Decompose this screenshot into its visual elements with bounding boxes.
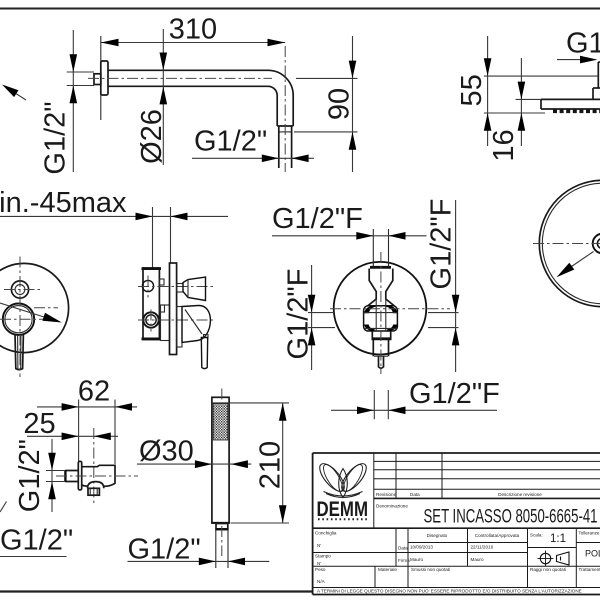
dimension 16 lower arrow (518, 113, 526, 131)
lever handle (15, 334, 23, 370)
svg-text:G1/2": G1/2" (194, 126, 267, 158)
hand shower G1/2 right arrow (228, 558, 245, 566)
mixer vertical centerline (19, 257, 21, 378)
wall extension line (100, 36, 102, 120)
dimension 210 top arrow (279, 403, 287, 421)
left G1/2F lower arrow (308, 328, 316, 346)
lever rosette outer circle (3, 304, 34, 335)
drawing frame bottom border (0, 590, 313, 592)
svg-text:Data: Data (398, 546, 408, 551)
svg-text:G1/2": G1/2" (566, 28, 600, 60)
diverter horizontal centerline (330, 308, 450, 310)
title block outer border (313, 453, 600, 595)
dimension 25 right arrow (94, 433, 111, 441)
head plate top (541, 98, 600, 100)
revision table column lines (395, 453, 397, 498)
dimension 16 upper arrow (518, 82, 526, 100)
svg-text:55: 55 (456, 74, 488, 106)
svg-text:G1/2"F: G1/2"F (283, 269, 315, 360)
head top view leader arrow (557, 263, 575, 278)
elbow inlet thread end face (64, 470, 66, 482)
right G1/2F dim line (455, 200, 457, 372)
svg-text:DEMM: DEMM (317, 497, 369, 521)
hub side port line lower (364, 327, 398, 329)
svg-text:Raggi non quotati: Raggi non quotati (530, 567, 566, 572)
hand shower bottom edge (212, 522, 229, 524)
svg-text:1:1: 1:1 (550, 533, 566, 545)
projection symbol circle (540, 553, 550, 563)
leader arrow at top left (14, 92, 26, 100)
hub top-right fillet (386, 306, 398, 314)
head G1/2 leader line (557, 59, 581, 61)
lever body (182, 305, 210, 342)
dimension 210 bottom arrow (279, 505, 287, 523)
svg-text:G1/2": G1/2" (128, 534, 201, 566)
svg-text:10/09/2013: 10/09/2013 (410, 544, 433, 549)
depth extension line right (170, 207, 172, 263)
arm thread G1/2 dim line (72, 30, 74, 172)
arm end G1/2 left arrow (262, 155, 279, 163)
dimension 90 upper arrow (349, 61, 357, 79)
upper axis centerline (138, 286, 214, 288)
dimension 90 lower arrow (349, 132, 357, 150)
diverter vertical centerline (380, 252, 382, 374)
spool upper block (368, 269, 394, 306)
elbow nut inner lines (89, 488, 91, 495)
arm end G1/2 label line (192, 157, 314, 159)
svg-text:G1/2"F: G1/2"F (272, 203, 363, 235)
head top view leader line (572, 252, 594, 267)
shower arm wall flange (101, 61, 108, 95)
diverter plate circle (334, 262, 427, 355)
svg-text:62: 62 (78, 376, 110, 408)
lever handle neck (204, 335, 209, 338)
lower block verticals (395, 528, 397, 566)
hand shower connector bottom thick (216, 528, 228, 530)
hub bottom-left fillet (364, 325, 375, 332)
DEMM logo drop (339, 469, 348, 498)
svg-text:POLI: POLI (585, 549, 600, 559)
bottom G1/2F left arrow (357, 407, 374, 415)
head plate left edge (540, 99, 542, 109)
bottom G1/2F extension lines (373, 390, 375, 419)
shower arm tube bottom edge (108, 85, 268, 87)
valve lower port outer circle (143, 312, 158, 327)
revision table row lines (374, 460, 600, 462)
bottom pipe end line (374, 355, 388, 357)
head connector top (593, 87, 600, 89)
head top view horizontal centerline (533, 243, 600, 245)
DEMM logo loops (316, 460, 349, 495)
shower arm threaded end left edge (278, 126, 280, 168)
head G1/2 leader arrow (580, 56, 598, 64)
hand shower top cap line (212, 402, 229, 404)
svg-text:16: 16 (488, 129, 520, 161)
svg-text:Firma: Firma (398, 558, 410, 563)
elbow G1/2 lower arrow (48, 482, 56, 500)
svg-text:Conchiglia: Conchiglia (315, 531, 337, 536)
leader stub (0, 502, 7, 513)
svg-text:A TERMINI DI LEGGE QUESTO DISE: A TERMINI DI LEGGE QUESTO DISEGNO NON PU… (317, 589, 582, 594)
valve upper port circle (142, 280, 153, 291)
spool center pipe edges (375, 299, 377, 331)
dimension 55 line (487, 36, 489, 146)
svg-text:SET INCASSO 8050-6665-41: SET INCASSO 8050-6665-41 (424, 507, 598, 528)
lever handle side view (201, 338, 207, 369)
dimension 55 upper arrow (484, 58, 492, 76)
valve body bottom cap (142, 337, 162, 340)
head top view hub inner circle (597, 238, 600, 248)
right G1/2F upper arrow (452, 295, 460, 313)
svg-text:Revisione: Revisione (376, 492, 397, 497)
title area bottom line (313, 527, 600, 529)
spool bottom shoulder (372, 337, 392, 340)
dimension 25 left arrow (62, 433, 79, 441)
dimension Ø26 lower arrow (160, 87, 168, 105)
hub bottom-right fillet (387, 325, 398, 332)
hand shower thread right edge (227, 530, 229, 569)
dimension 62 line (37, 406, 137, 408)
head top view inner circle (542, 183, 600, 303)
dimension 90 top extension line (296, 77, 358, 79)
svg-text:Denominazione: Denominazione (376, 504, 408, 509)
svg-text:Smussi non quotati: Smussi non quotati (411, 567, 450, 572)
spool hub (364, 306, 398, 331)
head thread top (598, 61, 600, 63)
lower axis centerline (138, 319, 215, 321)
shower arm collar line (277, 125, 293, 127)
dimension 16 line (520, 58, 522, 146)
spool lower neck (372, 331, 390, 338)
hand shower thread left edge (215, 530, 217, 569)
depth dim left arrow (136, 213, 153, 221)
legal strip top line (313, 587, 600, 589)
mixer wall plate circle (0, 263, 69, 352)
head top view outer circle (539, 180, 600, 306)
diverter button inner circle (15, 285, 25, 295)
elbow ball dome (88, 482, 104, 489)
plate horizontal centerline (34, 307, 58, 309)
arm thread G1/2 top extension line (67, 71, 94, 73)
svg-text:G1/2"F: G1/2"F (426, 199, 458, 290)
shower arm tube top edge (108, 69, 268, 71)
DEMM logo basket arc (324, 492, 363, 498)
head nozzles (553, 110, 600, 114)
hand shower knurled grip (213, 404, 228, 441)
elbow inlet pipe thread (65, 471, 78, 482)
mixer leader arrow (42, 313, 61, 323)
svg-text:N/A: N/A (317, 579, 326, 584)
mixer wall escutcheon section (170, 263, 177, 355)
head top view hub outer circle (593, 234, 600, 254)
top pipe left edge (372, 229, 374, 267)
valve lower port inner circle (146, 315, 156, 325)
shower arm bend inner (268, 86, 277, 126)
dimension 62 right arrow (115, 403, 132, 411)
right G1/2F extension lines (428, 312, 459, 314)
elbow nut (88, 488, 99, 495)
top G1/2F dim line (272, 235, 427, 237)
valve body top cap (142, 267, 162, 270)
bottom stub (379, 356, 384, 368)
DEMM logo dotted tagline (318, 518, 368, 520)
svg-text:Data: Data (410, 492, 420, 497)
svg-text:Disegnato: Disegnato (427, 533, 448, 538)
hand shower body outline (212, 397, 229, 523)
dimension 55 lower arrow (484, 113, 492, 131)
depth extension line left (152, 207, 154, 268)
shower arm wall thread stub (94, 74, 101, 85)
diverter knob joint line (187, 280, 189, 298)
upper port vertical centerline (147, 276, 149, 298)
svg-text:N': N' (317, 543, 321, 548)
diverter button outer circle (11, 281, 28, 298)
dimension 25 line (27, 435, 118, 437)
hub side port line upper (364, 312, 398, 314)
svg-text:Mauro: Mauro (410, 557, 423, 562)
shower arm thread step line (279, 131, 292, 133)
head plate bottom (541, 108, 600, 110)
dimension 310 right arrow (268, 39, 286, 47)
lower block horizontals (408, 542, 528, 544)
elbow G1/2 extension lines (46, 470, 65, 472)
hand shower centerline bottom (221, 526, 223, 556)
bottom pipe edges (372, 340, 374, 356)
dimension 310 line (101, 42, 285, 44)
revision table bottom line (374, 497, 600, 499)
lever rosette inner circle (5, 306, 32, 333)
svg-text:G1/2": G1/2" (14, 439, 46, 512)
body right tab upper (159, 279, 164, 285)
shower arm horizontal centerline (88, 77, 272, 79)
left G1/2F dim line (311, 265, 313, 370)
elbow G1/2 dim line (51, 439, 53, 512)
head connector left edge (592, 88, 594, 99)
shower arm drop centerline / 310 right extension (284, 46, 286, 172)
dimension 310 left arrow (101, 39, 119, 47)
svg-text:310: 310 (169, 14, 217, 46)
lower port vertical centerline (150, 310, 152, 332)
svg-text:min.-45max: min.-45max (0, 187, 127, 219)
dimension 210 extension lines (229, 402, 289, 404)
dimension 210 line (282, 403, 284, 523)
depth dim right arrow (171, 213, 188, 221)
left G1/2F upper arrow (308, 295, 316, 313)
svg-text:Mauro: Mauro (471, 557, 484, 562)
diverter knob (183, 277, 206, 301)
svg-text:90: 90 (324, 88, 356, 120)
elbow body (82, 465, 115, 486)
svg-text:210: 210 (254, 441, 286, 489)
projection symbol frustum (557, 552, 570, 565)
shower arm bend outer (268, 70, 293, 126)
diverter knob neck (177, 284, 183, 293)
svg-text:Tolleranze non quotate: Tolleranze non quotate (579, 530, 600, 535)
bottom G1/2F dim line (331, 409, 497, 411)
svg-text:Stampo: Stampo (315, 554, 331, 559)
spool top shoulder (370, 266, 391, 269)
svg-text:G1/2": G1/2" (0, 525, 73, 557)
lever hub block (177, 307, 182, 348)
dimension Ø26 line (162, 29, 164, 165)
mixer leader line (0, 303, 44, 317)
svg-text:Descrizione revisione: Descrizione revisione (498, 492, 542, 497)
dimension Ø26 upper arrow (160, 53, 168, 71)
dimension 55 top extension line (484, 75, 598, 77)
hub top-left fillet (364, 306, 376, 314)
elbow vertical centerline (93, 428, 95, 504)
bottom G1/2F right arrow (389, 407, 406, 415)
top pipe right edge (388, 229, 390, 267)
dimension 90 line (352, 36, 354, 172)
hand shower G1/2 dim line (128, 560, 270, 562)
svg-text:G1/2": G1/2" (40, 101, 72, 174)
elbow horizontal centerline (56, 475, 138, 477)
arm thread G1/2 lower arrow (70, 86, 78, 104)
valve body outer (143, 268, 159, 340)
svg-text:Ø26: Ø26 (136, 109, 168, 164)
lever horizontal centerline (0, 318, 48, 320)
arm thread G1/2 bottom extension line (67, 85, 94, 87)
svg-text:22/11/2016: 22/11/2016 (471, 544, 494, 549)
logo cell right edge (373, 453, 375, 528)
elbow G1/2 upper arrow (48, 453, 56, 471)
left G1/2F extension lines (308, 312, 335, 314)
drawing frame top border (0, 8, 600, 10)
top G1/2F left arrow (356, 232, 373, 240)
svg-text:Materiale: Materiale (378, 567, 397, 572)
shower arm threaded end right edge (291, 126, 293, 168)
body right tab lower (159, 305, 164, 312)
dimension 62 left arrow (62, 403, 79, 411)
button horizontal centerline (4, 289, 42, 291)
head thread edge (597, 62, 599, 88)
lever body inner line (185, 310, 202, 335)
cartridge sleeve (161, 305, 170, 341)
hand shower G1/2 left arrow (199, 558, 216, 566)
svg-text:Peso: Peso (315, 567, 326, 572)
hand shower connector (216, 524, 228, 530)
svg-text:Scala:: Scala: (530, 533, 543, 538)
svg-text:N': N' (317, 561, 321, 566)
dimension 90 bottom extension line (294, 131, 358, 133)
dimension 62 extension lines (78, 400, 80, 463)
right G1/2F lower arrow (452, 328, 460, 346)
svg-text:Controllata/Approvata: Controllata/Approvata (475, 533, 520, 538)
svg-text:Ø30: Ø30 (139, 436, 194, 468)
dimension 55 bottom extension line (484, 112, 545, 114)
svg-text:Trattamento: Trattamento (579, 567, 600, 572)
svg-text:25: 25 (23, 408, 55, 440)
dimension 16 extension line (516, 98, 541, 100)
depth dim line min-max (0, 215, 228, 217)
arm end G1/2 right arrow (292, 155, 309, 163)
lever handle inner lines (17, 335, 19, 369)
svg-text:G1/2"F: G1/2"F (409, 378, 500, 410)
dimension Ø30 arrow (195, 460, 212, 468)
elbow wall escutcheon (78, 461, 81, 490)
dimension Ø30 line (137, 463, 251, 465)
top G1/2F right arrow (389, 232, 406, 240)
elbow outlet G1/2 underline (0, 556, 67, 558)
hand shower centerline top (221, 389, 223, 401)
arm thread G1/2 upper arrow (70, 54, 78, 72)
